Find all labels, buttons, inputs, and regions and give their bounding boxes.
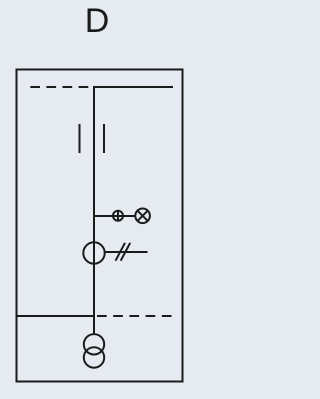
svg-text:D: D [85,2,110,40]
